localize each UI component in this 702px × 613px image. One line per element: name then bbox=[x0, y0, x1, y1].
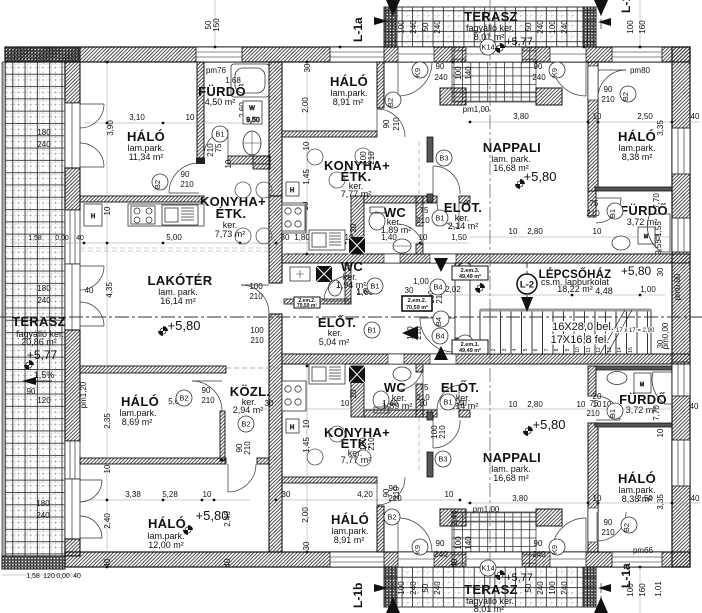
svg-text:100: 100 bbox=[626, 20, 635, 34]
central spine wall top bbox=[269, 62, 282, 196]
door LAKÓTÉR-ELŐT bbox=[241, 285, 269, 313]
svg-text:7,70: 7,70 bbox=[652, 405, 661, 421]
svg-text:5,04 m²: 5,04 m² bbox=[319, 337, 350, 347]
svg-text:LAKÓTÉR: LAKÓTÉR bbox=[148, 273, 213, 288]
door B2 KÖZL-HÁLÓ 12,00 bbox=[228, 464, 256, 492]
svg-text:2,40: 2,40 bbox=[450, 510, 459, 526]
dim line horizontal y237 nappali top bbox=[470, 236, 672, 238]
svg-text:100: 100 bbox=[454, 536, 463, 550]
door B1 ELŐT 2,14 bottom bbox=[437, 385, 459, 410]
stove bottom apartment bbox=[282, 381, 306, 411]
washing machine FÜRDŐ 3,72 bottom bbox=[634, 373, 651, 393]
room LÉPCSŐHÁZ label bbox=[539, 264, 652, 296]
svg-text:30: 30 bbox=[282, 490, 291, 499]
svg-text:17X16,8 fel.: 17X16,8 fel. bbox=[551, 334, 610, 346]
svg-text:150: 150 bbox=[212, 18, 221, 32]
svg-text:2,40: 2,40 bbox=[103, 513, 112, 529]
outer right wall bbox=[672, 47, 690, 567]
svg-text:7,77 m²: 7,77 m² bbox=[341, 455, 372, 465]
svg-text:7,77 m²: 7,77 m² bbox=[341, 189, 372, 199]
right wall window FÜRDŐ bottom bbox=[672, 362, 690, 396]
svg-text:M: M bbox=[640, 382, 644, 388]
svg-text:2,94 m²: 2,94 m² bbox=[233, 405, 264, 415]
toilet WC bottom bbox=[373, 391, 389, 413]
basin WC bottom bbox=[393, 367, 411, 381]
svg-text:1,45: 1,45 bbox=[302, 437, 311, 453]
svg-text:40: 40 bbox=[76, 235, 84, 242]
svg-text:210: 210 bbox=[416, 393, 430, 402]
bubble K14 bbox=[480, 39, 496, 55]
room FÜRDŐ 4,50 label bbox=[198, 84, 246, 107]
svg-text:30: 30 bbox=[281, 233, 290, 242]
svg-text:20,86 m²: 20,86 m² bbox=[21, 337, 57, 347]
svg-text:8,01 m²: 8,01 m² bbox=[474, 604, 505, 613]
svg-text:pm80: pm80 bbox=[630, 66, 651, 75]
svg-text:9,50: 9,50 bbox=[246, 117, 260, 124]
dim line horizontal y120 right bbox=[466, 121, 700, 123]
svg-text:75: 75 bbox=[590, 199, 599, 208]
svg-text:3,10: 3,10 bbox=[129, 113, 145, 122]
svg-text:10: 10 bbox=[575, 347, 581, 353]
door leaf K left wall HÁLÓ 11,34 lower bbox=[80, 143, 104, 167]
svg-text:210: 210 bbox=[601, 528, 615, 537]
dim line grid vertical x107 bbox=[106, 62, 108, 567]
left wall balcony door LAKÓTÉR bbox=[65, 264, 80, 330]
svg-text:100: 100 bbox=[397, 20, 406, 34]
dining chairs KONYHA 7,73 bbox=[235, 182, 272, 244]
entry arrow ELŐT 5,04 bbox=[402, 326, 418, 340]
svg-text:75: 75 bbox=[214, 143, 223, 152]
svg-text:210: 210 bbox=[586, 409, 600, 418]
corner tub FÜRDŐ 3,72 bottom bbox=[652, 372, 672, 404]
svg-text:30: 30 bbox=[405, 286, 414, 295]
svg-text:210: 210 bbox=[201, 396, 215, 405]
wall NAPPALI/HÁLÓ 8,38 top apt bbox=[588, 62, 598, 191]
door K9 top terrace left bbox=[398, 62, 432, 96]
svg-text:2: 2 bbox=[491, 348, 497, 351]
svg-text:120: 120 bbox=[37, 396, 51, 405]
centerline vertical axis bbox=[489, 0, 491, 613]
toilet WC top bbox=[369, 207, 385, 230]
door B2 HÁLÓ 8,91 bottom bbox=[377, 477, 405, 505]
svg-text:120: 120 bbox=[43, 573, 55, 580]
svg-text:1,50: 1,50 bbox=[451, 233, 467, 242]
dim tick dots bbox=[83, 46, 674, 569]
svg-text:90: 90 bbox=[604, 518, 613, 527]
svg-text:16X28,0 bel.: 16X28,0 bel. bbox=[552, 321, 614, 333]
svg-text:7: 7 bbox=[544, 348, 550, 351]
right wall window HÁLÓ 8,38 bottom bbox=[672, 440, 690, 486]
svg-text:B2: B2 bbox=[386, 98, 395, 107]
right wall window HÁLÓ 8,38 top bbox=[672, 128, 690, 174]
svg-text:8,38 m²: 8,38 m² bbox=[622, 152, 653, 162]
svg-text:90: 90 bbox=[436, 539, 445, 548]
svg-text:H: H bbox=[290, 425, 294, 431]
svg-text:240: 240 bbox=[36, 511, 50, 520]
svg-text:0,00: 0,00 bbox=[55, 235, 69, 242]
tag 2.em.3 bbox=[452, 266, 488, 280]
svg-text:B4: B4 bbox=[433, 283, 442, 292]
svg-text:30: 30 bbox=[265, 399, 274, 408]
room HÁLÓ 8,69 label bbox=[119, 394, 159, 427]
sink LAKÓTÉR bbox=[162, 205, 198, 225]
wall HÁLÓ 8,69 bottom bbox=[80, 458, 269, 464]
svg-text:L-2: L-2 bbox=[520, 280, 534, 291]
room NAPPALI top label bbox=[483, 140, 557, 184]
room LAKÓTÉR 16,14 label bbox=[148, 273, 213, 333]
door B2 HÁLÓ 8,69 bbox=[192, 381, 222, 411]
wall HÁLÓ 11,34 right bbox=[196, 62, 205, 164]
svg-text:+5,80: +5,80 bbox=[524, 169, 557, 184]
svg-text:240: 240 bbox=[532, 550, 546, 559]
svg-text:9: 9 bbox=[565, 348, 571, 351]
svg-text:pm76: pm76 bbox=[206, 66, 227, 75]
svg-text:10: 10 bbox=[341, 399, 350, 408]
svg-text:2,40: 2,40 bbox=[223, 511, 232, 527]
svg-text:4: 4 bbox=[512, 348, 518, 351]
door K9 bottom terrace right bbox=[552, 518, 586, 552]
svg-text:1,40: 1,40 bbox=[381, 233, 397, 242]
svg-text:4,35: 4,35 bbox=[105, 282, 114, 298]
dining chairs KONYHA 7,77 top bbox=[307, 148, 371, 188]
door leaf K left wall LAKÓTÉR upper bbox=[80, 266, 104, 290]
dim line vertical x215 top outside bbox=[214, 0, 216, 47]
svg-text:100: 100 bbox=[454, 66, 463, 80]
svg-text:1,00: 1,00 bbox=[413, 277, 429, 286]
svg-text:240: 240 bbox=[434, 73, 448, 82]
svg-text:12,00 m²: 12,00 m² bbox=[148, 540, 184, 550]
svg-text:1,80: 1,80 bbox=[294, 233, 310, 242]
svg-text:20: 20 bbox=[349, 223, 358, 232]
svg-text:10: 10 bbox=[445, 490, 454, 499]
washbasin FÜRDŐ 3,72 bottom bbox=[607, 372, 627, 385]
basin small left apartment bbox=[290, 267, 310, 281]
svg-text:3,80: 3,80 bbox=[512, 494, 528, 503]
wall NAPPALI/KONYHA top apt bbox=[427, 137, 433, 202]
room TERASZ 20,86 label bbox=[12, 314, 66, 380]
svg-text:+5,80: +5,80 bbox=[168, 318, 201, 333]
svg-text:B2: B2 bbox=[241, 420, 250, 429]
door B2 HÁLÓ 11,34 bbox=[169, 163, 199, 193]
svg-text:2,50: 2,50 bbox=[637, 494, 653, 503]
bubble B1 bbox=[432, 210, 448, 226]
bubble B2 bbox=[384, 509, 400, 525]
svg-text:240: 240 bbox=[433, 20, 442, 34]
svg-text:W: W bbox=[249, 106, 255, 112]
bottom wall terrace door K9 right opening bbox=[550, 552, 586, 567]
svg-text:50: 50 bbox=[421, 22, 430, 31]
svg-text:30: 30 bbox=[302, 541, 311, 550]
svg-text:100: 100 bbox=[548, 20, 557, 34]
top terrace TERASZ 8,01 tiled deck bbox=[384, 7, 596, 47]
svg-text:240: 240 bbox=[37, 140, 51, 149]
svg-text:90: 90 bbox=[534, 539, 543, 548]
svg-text:H: H bbox=[290, 188, 294, 194]
svg-text:50: 50 bbox=[524, 583, 533, 592]
left house wall segment 2 bbox=[65, 168, 80, 210]
door B1 FÜRDŐ 4,50 bbox=[204, 130, 228, 157]
bubble B2 bbox=[238, 416, 254, 432]
svg-text:240: 240 bbox=[560, 581, 569, 595]
svg-text:+5,77: +5,77 bbox=[505, 572, 533, 584]
left wall window LAKÓTÉR bbox=[65, 210, 80, 264]
svg-text:2,80: 2,80 bbox=[527, 400, 543, 409]
svg-text:10: 10 bbox=[103, 464, 112, 473]
svg-text:B1: B1 bbox=[367, 326, 376, 335]
stairwell wall gap WC top bbox=[384, 254, 400, 263]
stove LAKÓTÉR bbox=[131, 206, 155, 224]
room WC 1,94 center label bbox=[336, 259, 374, 297]
svg-text:HÁLÓ: HÁLÓ bbox=[331, 512, 369, 527]
svg-text:2,50: 2,50 bbox=[637, 112, 653, 121]
bubble C8 bbox=[457, 335, 473, 351]
left wall balcony door HÁLÓ 11,34 bbox=[65, 103, 80, 168]
svg-text:10: 10 bbox=[224, 159, 233, 168]
left house wall segment 3 bbox=[65, 330, 80, 441]
door entry ELŐT 5,04 bbox=[420, 318, 455, 352]
dim line horizontal y411 nappali bottom bbox=[470, 408, 672, 410]
wall kitchen LAKÓTÉR bbox=[80, 196, 204, 202]
door B1 WC 1,94 bbox=[324, 276, 349, 301]
stairs figure text bbox=[551, 321, 655, 346]
svg-text:90: 90 bbox=[27, 387, 36, 396]
tag 2.em.1 bbox=[452, 340, 488, 354]
door B2 HÁLÓ 8,38 bottom bbox=[597, 512, 626, 541]
svg-text:10: 10 bbox=[186, 113, 195, 122]
svg-text:10: 10 bbox=[509, 227, 518, 236]
room ELŐT 2,14 top label bbox=[444, 200, 482, 231]
svg-text:10: 10 bbox=[577, 400, 586, 409]
wall HÁLÓ 8,91 bottom apt bbox=[282, 477, 377, 483]
room HÁLÓ 11,34 label bbox=[127, 129, 165, 162]
room KONYHA+ÉTK 7,73 label bbox=[200, 194, 266, 239]
svg-text:1,58: 1,58 bbox=[26, 573, 40, 580]
dim line horizontal y409 bbox=[262, 408, 468, 410]
H cabinet LAKÓTÉR bbox=[84, 204, 102, 226]
H cabinet top apartment bbox=[286, 182, 299, 196]
svg-text:100: 100 bbox=[250, 326, 264, 335]
svg-text:210: 210 bbox=[243, 441, 252, 455]
dim line horizontal y293 stair bbox=[436, 294, 665, 296]
bubble B1 bbox=[607, 403, 623, 419]
svg-text:B2: B2 bbox=[153, 180, 162, 189]
wall FÜRDŐ left top apt bbox=[588, 191, 596, 217]
svg-text:210: 210 bbox=[438, 425, 447, 439]
svg-text:160: 160 bbox=[638, 20, 647, 34]
room HÁLÓ 12,00 label bbox=[147, 508, 228, 550]
svg-text:90: 90 bbox=[382, 488, 391, 497]
door leaf K left wall HÁLÓ 12,00 lower bbox=[80, 516, 102, 538]
svg-text:4,50 m²: 4,50 m² bbox=[205, 97, 236, 107]
svg-text:K9: K9 bbox=[550, 545, 559, 554]
bottom wall window HÁLÓ 8,91 bbox=[330, 552, 384, 567]
svg-text:11: 11 bbox=[586, 347, 592, 352]
wall FÜRDŐ left bottom apt bbox=[588, 366, 672, 396]
wall HÁLÓ 8,38/FÜRDŐ bottom apt bbox=[595, 423, 672, 427]
svg-text:210: 210 bbox=[250, 336, 264, 345]
svg-text:pm66: pm66 bbox=[633, 546, 654, 555]
svg-text:90: 90 bbox=[436, 62, 445, 71]
wall WC 1,94 right bbox=[345, 263, 351, 304]
svg-text:7,70: 7,70 bbox=[652, 193, 661, 209]
svg-text:B1: B1 bbox=[435, 214, 444, 223]
stairs tread numbers bbox=[481, 347, 634, 353]
room WC 1,89 bottom label bbox=[382, 380, 413, 411]
svg-text:140: 140 bbox=[464, 536, 473, 550]
svg-text:K14: K14 bbox=[481, 564, 494, 573]
svg-text:240: 240 bbox=[409, 581, 418, 595]
bubble C8 bbox=[457, 263, 473, 279]
svg-text:210: 210 bbox=[416, 216, 430, 225]
svg-text:15: 15 bbox=[628, 347, 634, 353]
svg-text:17 x 17 = 2,90: 17 x 17 = 2,90 bbox=[616, 328, 655, 334]
svg-text:B1: B1 bbox=[370, 282, 379, 291]
svg-text:M: M bbox=[644, 234, 648, 240]
svg-text:HÁLÓ: HÁLÓ bbox=[618, 471, 656, 486]
svg-text:90: 90 bbox=[382, 119, 391, 128]
svg-text:90: 90 bbox=[202, 386, 211, 395]
svg-text:3,35: 3,35 bbox=[656, 494, 665, 510]
svg-text:30: 30 bbox=[656, 267, 665, 276]
svg-text:40: 40 bbox=[450, 558, 459, 567]
room KONYHA+ÉTK 7,77 bottom label bbox=[324, 425, 390, 465]
bubble K9 bbox=[412, 62, 428, 78]
svg-text:0,00: 0,00 bbox=[56, 573, 70, 580]
room HÁLÓ 8,38 bottom label bbox=[618, 471, 656, 504]
svg-text:75: 75 bbox=[420, 383, 429, 392]
svg-text:140: 140 bbox=[464, 66, 473, 80]
survey marker HÁLÓ 12,00 +5,80 bbox=[183, 525, 193, 535]
svg-text:210: 210 bbox=[367, 437, 376, 451]
bottom terrace TERASZ 8,01 tiled deck bbox=[384, 567, 596, 607]
svg-text:NAPPALI: NAPPALI bbox=[483, 140, 541, 155]
svg-text:7,73 m²: 7,73 m² bbox=[215, 229, 246, 239]
svg-text:2,35: 2,35 bbox=[103, 413, 112, 429]
svg-text:12: 12 bbox=[596, 347, 602, 353]
sink bottom apartment bbox=[309, 364, 345, 384]
svg-text:10: 10 bbox=[593, 494, 602, 503]
survey marker LAKÓTÉR +5,80 bbox=[158, 326, 168, 336]
dim line vertical x640 right outside bbox=[639, 0, 641, 613]
svg-text:4,48: 4,48 bbox=[595, 286, 613, 296]
svg-text:100: 100 bbox=[397, 581, 406, 595]
sink top apartment bbox=[309, 230, 345, 250]
stair arrow up bbox=[434, 258, 448, 272]
svg-text:180: 180 bbox=[37, 284, 51, 293]
svg-text:6: 6 bbox=[533, 348, 539, 351]
bubble B2 bbox=[385, 92, 401, 108]
room ELŐT 2,14 bottom label bbox=[441, 380, 479, 411]
svg-text:B2: B2 bbox=[179, 394, 188, 403]
svg-text:90: 90 bbox=[604, 85, 613, 94]
svg-text:B1: B1 bbox=[215, 130, 224, 139]
svg-text:70,59 m²: 70,59 m² bbox=[406, 304, 428, 311]
svg-text:210: 210 bbox=[392, 117, 401, 131]
door B1 ELŐT 2,14 top bbox=[437, 203, 459, 228]
basin WC top bbox=[393, 239, 411, 253]
kitchen counter LAKÓTÉR bbox=[128, 204, 204, 226]
central spine wall bottom bbox=[269, 314, 282, 552]
svg-text:50: 50 bbox=[421, 583, 430, 592]
top wall terrace door K9 right opening bbox=[550, 47, 586, 62]
svg-text:+5,80: +5,80 bbox=[533, 417, 566, 432]
left wall window HÁLÓ 12,00 bbox=[65, 441, 80, 479]
svg-text:2,00: 2,00 bbox=[301, 507, 310, 523]
bubble B2 bbox=[620, 86, 636, 102]
washbasin FÜRDŐ 4,50 bbox=[243, 131, 261, 155]
H cabinet bottom apartment bbox=[286, 419, 299, 433]
svg-text:210: 210 bbox=[586, 209, 600, 218]
door K9 bottom terrace left bbox=[398, 518, 432, 552]
svg-text:K9: K9 bbox=[413, 68, 422, 77]
svg-text:16,14 m²: 16,14 m² bbox=[160, 296, 196, 306]
door leaf K left wall LAKÓTÉR lower bbox=[80, 302, 104, 326]
stairs walk line arrow bbox=[521, 263, 533, 312]
section line L-1a bottom bbox=[594, 563, 633, 613]
svg-text:ÉTK.: ÉTK. bbox=[216, 206, 247, 221]
section line L-1a top bbox=[351, 0, 400, 42]
dim line grid vertical x307 bbox=[306, 62, 308, 552]
svg-text:K14: K14 bbox=[481, 43, 494, 52]
door B3 KONYHA top bbox=[433, 166, 460, 194]
bathtub FÜRDŐ 4,50 bbox=[231, 64, 269, 97]
svg-text:HÁLÓ: HÁLÓ bbox=[148, 516, 186, 531]
svg-text:3,35: 3,35 bbox=[656, 120, 665, 136]
svg-text:B4: B4 bbox=[435, 332, 444, 341]
svg-text:+5,77: +5,77 bbox=[505, 36, 533, 48]
washing machine FÜRDŐ 4,50 bbox=[243, 101, 262, 124]
svg-text:1,5%: 1,5% bbox=[34, 370, 55, 380]
wall HÁLÓ 8,91 right bottom apt bbox=[377, 506, 384, 552]
svg-text:1,45: 1,45 bbox=[302, 169, 311, 185]
stairs treads bbox=[480, 310, 651, 354]
svg-text:5,00: 5,00 bbox=[166, 233, 182, 242]
wall WC/ELŐT divider bottom apt bbox=[416, 364, 423, 417]
wall NAPPALI/HÁLÓ 8,38 bottom apt bbox=[588, 423, 598, 552]
dashed open plan line LAKÓTÉR bbox=[80, 248, 269, 251]
svg-text:10: 10 bbox=[593, 112, 602, 121]
svg-text:pm0,00: pm0,00 bbox=[661, 322, 670, 349]
svg-text:1,68: 1,68 bbox=[225, 76, 241, 85]
wall WC 1,94 bottom bbox=[284, 299, 351, 304]
svg-text:B2: B2 bbox=[622, 523, 631, 532]
svg-text:HÁLÓ: HÁLÓ bbox=[618, 129, 656, 144]
svg-text:pm1,20: pm1,20 bbox=[79, 381, 88, 408]
top wall terrace door K9 left opening bbox=[398, 47, 434, 62]
bottom wall terrace door K9 left opening bbox=[398, 552, 434, 567]
svg-text:B1: B1 bbox=[443, 398, 452, 407]
svg-text:B3: B3 bbox=[438, 455, 447, 464]
svg-text:180: 180 bbox=[37, 128, 51, 137]
bubble K9 bbox=[412, 539, 428, 555]
svg-text:+5,77: +5,77 bbox=[27, 348, 58, 362]
svg-text:B4: B4 bbox=[434, 317, 443, 326]
svg-text:90: 90 bbox=[534, 62, 543, 71]
room ELŐT 5,04 label bbox=[318, 315, 356, 347]
wall HÁLÓ 8,91 right top apt bbox=[377, 62, 384, 108]
door B1 WC top bbox=[397, 224, 423, 250]
svg-text:180: 180 bbox=[36, 499, 50, 508]
bubble B3 bbox=[436, 150, 452, 166]
survey marker NAPPALI bottom +5,80 bbox=[523, 426, 533, 436]
dining chairs KONYHA 7,77 bottom bbox=[307, 426, 371, 466]
stairwell wall gap WC bottom bbox=[388, 354, 404, 364]
svg-text:K9: K9 bbox=[413, 545, 422, 554]
svg-text:B2: B2 bbox=[621, 92, 630, 101]
room TERASZ 8,01 top label bbox=[464, 9, 533, 48]
svg-text:8,69 m²: 8,69 m² bbox=[122, 417, 153, 427]
svg-text:L-1b: L-1b bbox=[619, 0, 633, 13]
